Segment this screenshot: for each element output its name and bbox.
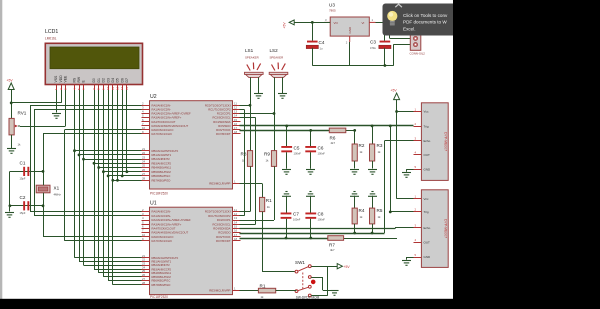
U2 pin 27 RB6/KBI2/PGC xyxy=(142,172,171,178)
junction C7 tap xyxy=(285,237,288,240)
svg-text:Echo: Echo xyxy=(424,139,431,143)
wire R9 to U1 RC2 xyxy=(274,166,276,220)
wire R5 to line xyxy=(372,224,374,233)
svg-text:D4: D4 xyxy=(111,78,115,82)
wire +5V module rail xyxy=(396,100,398,199)
svg-text:12: 12 xyxy=(116,86,120,90)
svg-text:RA6/OSC2/CLKO: RA6/OSC2/CLKO xyxy=(152,235,174,239)
svg-text:RA4/T0CKI/C1OUT: RA4/T0CKI/C1OUT xyxy=(152,120,176,124)
svg-text:Vcc: Vcc xyxy=(424,197,430,201)
svg-text:GND: GND xyxy=(424,167,432,171)
wire bus E to U1 RB2 xyxy=(84,265,142,267)
U1 pin 1 RE3/MCLR/VPP xyxy=(209,286,240,292)
wire line2 U1 RC6 left xyxy=(240,238,328,240)
wire Trig2 wire xyxy=(390,211,413,213)
svg-text:Trig: Trig xyxy=(424,124,429,128)
U3 GND label xyxy=(348,26,352,34)
svg-text:RC6/TX/CK: RC6/TX/CK xyxy=(216,235,231,239)
wire gnd bus under U3 xyxy=(312,65,393,67)
LCD pin label D5 pin 12 xyxy=(116,78,120,90)
label R1 bottom xyxy=(260,283,266,288)
wire SW1 to +5V xyxy=(311,266,337,268)
U1 pin 9 RA7/OSC1/CLKI xyxy=(142,237,173,243)
U1 pin 10 RA6/OSC2/CLKO xyxy=(142,233,174,239)
label C3 xyxy=(370,40,376,45)
svg-text:13: 13 xyxy=(120,86,124,90)
svg-text:R4: R4 xyxy=(359,208,365,213)
wire line2 right of R7 xyxy=(344,238,397,240)
svg-text:R5: R5 xyxy=(377,208,383,213)
wire C7 stem top xyxy=(286,196,288,213)
wire Vcc1 wire xyxy=(397,111,414,113)
wire U2 MCLR out xyxy=(240,183,263,185)
U2 pin 16 RC5/SDO xyxy=(218,122,240,128)
svg-text:R7: R7 xyxy=(329,243,335,248)
wire to U2 RA6/OSC2 xyxy=(65,129,142,131)
svg-text:RC1/T1OSI/CCP2: RC1/T1OSI/CCP2 xyxy=(208,108,231,112)
svg-text:RC3/SCK/SCL: RC3/SCK/SCL xyxy=(212,116,231,120)
svg-text:RA7/OSC1/CLKI: RA7/OSC1/CLKI xyxy=(152,132,173,136)
svg-text:RB6/KBI2/PGC: RB6/KBI2/PGC xyxy=(152,174,171,178)
junction bus RS tap U2 xyxy=(73,149,76,152)
wire bus D4 to U2 RB7 xyxy=(113,180,142,182)
svg-text:R1: R1 xyxy=(260,283,266,288)
ground R5 ground xyxy=(368,192,377,197)
svg-text:RB1/AN10/INT1: RB1/AN10/INT1 xyxy=(152,153,172,157)
svg-text:28: 28 xyxy=(142,281,146,285)
wire U2 RC2 to LS2 xyxy=(240,113,275,115)
svg-text:RA5/AN4/SS/HLVDIN/C2OUT: RA5/AN4/SS/HLVDIN/C2OUT xyxy=(152,124,189,128)
ground crystal ground xyxy=(5,213,14,218)
svg-text:100nF: 100nF xyxy=(318,218,326,222)
wire bus D1 vertical xyxy=(98,90,100,273)
label U2 PIC18F2520 xyxy=(150,192,168,196)
wire bus RS vertical xyxy=(74,90,76,258)
U1 pin 21 RB0/AN12/INT0/FLT0 xyxy=(142,254,179,260)
ground R3 ground xyxy=(368,170,377,175)
svg-text:DYP-ME007: DYP-ME007 xyxy=(444,132,448,151)
svg-text:D3: D3 xyxy=(106,78,110,82)
U2 pin 1 RE3/MCLR/VPP xyxy=(209,180,240,186)
power arrow +5V at SW1 (right) xyxy=(337,264,342,269)
svg-text:28: 28 xyxy=(142,177,146,181)
U2 pin 14 RC3/SCK/SCL xyxy=(212,114,240,120)
U1 pin 26 RB5/KBI1/PGM xyxy=(142,273,172,279)
value C4 xyxy=(320,47,323,51)
resistor R1 xyxy=(260,197,265,211)
wire C8 stem top xyxy=(310,196,312,213)
wire bus D6 vertical xyxy=(122,90,124,176)
wire +5V to LCD VDD xyxy=(11,102,61,104)
svg-text:C5: C5 xyxy=(294,146,300,151)
U2 pin 18 RC7/RX/DT xyxy=(216,130,241,136)
svg-text:OUT: OUT xyxy=(424,240,431,244)
LCD pin label D1 pin 8 xyxy=(97,78,101,90)
U1 pin 2 RA0/AN0/C1IN- xyxy=(142,208,171,214)
wire LCD VEE drop xyxy=(65,90,67,126)
tooltip lightbulb icon xyxy=(387,11,397,26)
wire SW1 bottom link xyxy=(311,295,328,297)
svg-text:RW: RW xyxy=(77,76,81,82)
svg-text:Click on Tools to conv: Click on Tools to conv xyxy=(403,13,448,18)
U1 pin 23 RB2/AN8/INT2 xyxy=(142,261,171,267)
svg-text:4k7: 4k7 xyxy=(331,141,336,145)
wire AN1 rail xyxy=(34,110,36,216)
wire R4 to line xyxy=(354,224,356,233)
ground R4 ground xyxy=(350,192,359,197)
U2 pin 22 RB1/AN10/INT1 xyxy=(142,151,172,157)
U1 pin 24 RB3/AN9/CCP2 xyxy=(142,265,172,271)
U3 VI label xyxy=(362,21,365,25)
wire bus D2 vertical xyxy=(103,90,105,277)
U2 pin 3 RA1/AN1/C2IN- xyxy=(142,106,171,112)
wire bus RW vertical xyxy=(79,90,81,261)
svg-text:C2: C2 xyxy=(20,195,26,200)
label SPEAKER LS2 xyxy=(270,56,284,60)
wire GND1 wire xyxy=(407,169,414,171)
junction Trig rail tap xyxy=(389,125,392,128)
U1 pin 12 RC1/T1OSI/CCP2 xyxy=(208,212,240,218)
junction bus D2 tap U2 xyxy=(102,170,105,173)
svg-text:RC7/RX/DT: RC7/RX/DT xyxy=(216,132,231,136)
junction bus D4 tap U2 xyxy=(111,179,114,182)
wire LS2 to R9 rail xyxy=(274,82,276,151)
capacitor C5 xyxy=(281,146,292,152)
svg-text:R1: R1 xyxy=(266,198,272,203)
wire C3 stem bottom xyxy=(384,48,386,66)
wire OSC2 rail xyxy=(64,130,66,241)
wire Trig rail xyxy=(390,126,392,212)
wire bus E vertical xyxy=(83,90,85,265)
LCD pin label D2 pin 9 xyxy=(101,78,105,90)
label U1 xyxy=(150,201,157,207)
label SW1 xyxy=(295,260,305,265)
wire line A U2 RC5 / Trig xyxy=(240,125,414,127)
wire GND2 wire xyxy=(407,257,414,259)
wire R5 stem top xyxy=(372,196,374,208)
U2 pin 13 RC2/CCP1 xyxy=(217,110,241,116)
junction C3 tap xyxy=(384,21,387,24)
wire C1-C2 common xyxy=(9,171,11,205)
U1 pin 4 RA2/AN2/C2IN+/VREF-/CVREF xyxy=(142,216,192,222)
wire C6 to gnd xyxy=(310,152,312,168)
wire U1 RC0 wire xyxy=(240,211,251,213)
svg-text:RB0/AN12/INT0/FLT0: RB0/AN12/INT0/FLT0 xyxy=(152,256,179,260)
svg-text:C8: C8 xyxy=(318,212,324,217)
module U4 DYP-ME007 vertical label xyxy=(444,132,448,151)
wire C4 stem top xyxy=(312,22,314,40)
wire to U2 RA7/OSC1 xyxy=(43,133,142,135)
svg-text:470u: 470u xyxy=(370,46,376,50)
wire bus RW to U2 RB1 xyxy=(79,154,142,156)
wire bus D2 to U2 RB5 xyxy=(103,171,141,173)
svg-text:RA2/AN2/C2IN+/VREF-/CVREF: RA2/AN2/C2IN+/VREF-/CVREF xyxy=(152,112,192,116)
wire C4 stem bottom xyxy=(312,48,314,66)
microcontroller U1 PIC18F2520 body xyxy=(150,207,233,294)
svg-text:RC5/SDO: RC5/SDO xyxy=(218,124,230,128)
wire U3 VO wire xyxy=(294,22,330,24)
svg-text:R3: R3 xyxy=(377,143,383,148)
wire Vcc2 wire xyxy=(397,198,414,200)
LCD screen xyxy=(50,47,139,69)
ultrasonic module U5 DYP-ME007 body xyxy=(421,190,448,268)
wire GND2 stem xyxy=(406,257,408,260)
U1 pin 5 RA3/AN3/C1IN+/VREF+ xyxy=(142,220,182,226)
svg-text:RA0/AN0/C1IN-: RA0/AN0/C1IN- xyxy=(152,210,171,214)
wire bus E to U2 RB2 xyxy=(84,159,142,161)
wire C5 stem xyxy=(286,126,288,146)
junction bus D3 tap U2 xyxy=(107,175,110,178)
U2 pin 5 RA3/AN3/C1IN+/VREF+ xyxy=(142,114,182,120)
U3 pin 1 stub xyxy=(369,18,375,22)
wire VI drop to conn xyxy=(389,22,391,38)
svg-text:RA1/AN1/C2IN-: RA1/AN1/C2IN- xyxy=(152,214,171,218)
svg-text:RB5/KBI1/PGM: RB5/KBI1/PGM xyxy=(152,275,172,279)
svg-text:PIC18F2520: PIC18F2520 xyxy=(150,192,168,196)
svg-text:RB4/KBI0/AN11: RB4/KBI0/AN11 xyxy=(152,166,172,170)
svg-text:4k7: 4k7 xyxy=(330,248,335,252)
wire conn pin2 wire xyxy=(394,44,411,46)
wire Echo1 wire xyxy=(385,140,414,142)
speaker LS1 symbol xyxy=(245,63,264,78)
ground SW1 ground xyxy=(330,291,338,296)
wire SW1 throw2 link xyxy=(311,277,323,279)
svg-text:100nF: 100nF xyxy=(293,218,301,222)
LCD pin label D4 pin 11 xyxy=(111,78,115,90)
svg-text:RB7/KBI3/PGD: RB7/KBI3/PGD xyxy=(152,178,171,182)
svg-text:LS2: LS2 xyxy=(270,48,279,53)
LCD pin label E pin 6 xyxy=(82,80,86,91)
U3 pin 2 stub xyxy=(346,36,350,44)
svg-text:RC3/SCK/SCL: RC3/SCK/SCL xyxy=(212,222,231,226)
svg-text:+5V: +5V xyxy=(7,79,14,83)
label +5V modules xyxy=(391,89,398,93)
U1 pin 22 RB1/AN10/INT1 xyxy=(142,258,172,264)
resistor R8 xyxy=(247,151,252,167)
wire Echo2 wire xyxy=(395,227,414,229)
junction C2-X1 node xyxy=(42,204,45,207)
svg-text:RC4/SDI/SDA: RC4/SDI/SDA xyxy=(213,120,230,124)
U2 pin 21 RB0/AN12/INT0/FLT0 xyxy=(142,147,179,153)
svg-text:R6: R6 xyxy=(330,136,336,141)
connector J1 CONN-SIL2 xyxy=(410,35,421,51)
U1 pin 14 RC3/SCK/SCL xyxy=(212,220,240,226)
label 7805 xyxy=(329,9,336,13)
svg-text:D2: D2 xyxy=(102,78,106,82)
junction bus D7 tap xyxy=(126,170,129,173)
label LM016L xyxy=(45,37,57,41)
svg-text:RA7/OSC1/CLKI: RA7/OSC1/CLKI xyxy=(152,239,173,243)
svg-text:15pF: 15pF xyxy=(20,177,26,181)
ground module2 ground xyxy=(402,261,411,266)
U2 pin 26 RB5/KBI1/PGM xyxy=(142,168,172,174)
svg-text:RC2/CCP1: RC2/CCP1 xyxy=(217,112,231,116)
capacitor C3 (electrolytic) xyxy=(379,41,391,49)
U1 pin 6 RA4/T0CKI/C1OUT xyxy=(142,225,176,231)
capacitor C2 xyxy=(23,201,29,210)
svg-text:C3: C3 xyxy=(370,40,376,45)
module U5 pin 2 Trig xyxy=(414,208,429,214)
wire U3 gnd drop xyxy=(349,42,351,66)
wire bus D7 vertical xyxy=(126,90,128,172)
wire Echo1 rail xyxy=(384,141,386,233)
LCD pin label D6 pin 13 xyxy=(120,78,124,90)
label U2 xyxy=(150,94,157,100)
U1 pin 28 RB7/KBI3/PGD xyxy=(142,281,171,287)
junction bus D5 tap xyxy=(116,179,119,182)
wire RV1 to gnd xyxy=(11,135,13,148)
U2 pin 24 RB3/AN9/CCP2 xyxy=(142,160,172,166)
svg-text:DYP-ME007: DYP-ME007 xyxy=(444,219,448,238)
wire LS1 right leg stub xyxy=(258,77,260,82)
U3 VO label xyxy=(334,21,339,25)
U2 pin 17 RC6/TX/CK xyxy=(216,126,240,132)
svg-text:GND: GND xyxy=(424,255,432,259)
svg-text:18: 18 xyxy=(234,237,238,241)
svg-text:U1: U1 xyxy=(150,201,157,207)
LCD pin label RW pin 5 xyxy=(77,76,81,90)
LCD pin label D0 pin 7 xyxy=(92,78,96,90)
value C3 xyxy=(370,46,376,50)
svg-text:RB0/AN12/INT0/FLT0: RB0/AN12/INT0/FLT0 xyxy=(152,149,179,153)
resistor R3 xyxy=(370,144,375,161)
label U3 xyxy=(329,3,335,8)
ground R2 ground xyxy=(350,170,359,175)
wire C8 to line xyxy=(310,219,312,238)
U2 pin 15 RC4/SDI/SDA xyxy=(213,118,240,124)
svg-text:U3: U3 xyxy=(329,3,335,8)
wire R3 to gnd xyxy=(372,161,374,169)
RV1 wiper arrow xyxy=(15,125,20,128)
wire +5V to RV1 xyxy=(11,90,13,119)
label CONN-SIL2 xyxy=(410,52,426,56)
wire AN0 rail xyxy=(30,105,32,211)
U2 pin 28 RB7/KBI3/PGD xyxy=(142,177,171,183)
junction C8 tap xyxy=(309,237,312,240)
svg-text:RB4/KBI0/AN11: RB4/KBI0/AN11 xyxy=(152,271,172,275)
module U4 pin 2 Trig xyxy=(414,122,429,128)
svg-text:LS1: LS1 xyxy=(245,48,254,53)
svg-text:4MHz: 4MHz xyxy=(54,193,62,197)
svg-text:VI: VI xyxy=(362,21,365,25)
svg-text:7805: 7805 xyxy=(329,9,336,13)
module U5 pin 5 GND xyxy=(414,253,432,259)
wire C6 stem xyxy=(310,130,312,146)
resistor R5 xyxy=(370,208,375,224)
label +5V left rail xyxy=(7,79,14,83)
capacitor C6 xyxy=(305,146,316,152)
svg-text:C7: C7 xyxy=(293,212,299,217)
LCD pin label RS pin 4 xyxy=(73,77,77,90)
svg-text:RB5/KBI1/PGM: RB5/KBI1/PGM xyxy=(152,170,172,174)
wire bus D4 to U1 RB7 xyxy=(113,284,142,286)
label SW-DPDT-MOM xyxy=(296,296,320,300)
wire LS1 left leg stub xyxy=(250,77,252,82)
svg-text:LM016L: LM016L xyxy=(45,37,57,41)
label U1 PIC18F2520 xyxy=(150,295,168,299)
svg-text:RC0/T1OSO/T13CKI: RC0/T1OSO/T13CKI xyxy=(205,103,231,107)
resistor RV1 xyxy=(9,118,14,134)
wire AN0 to U2 RA0 xyxy=(30,105,142,107)
speaker LS2 symbol xyxy=(269,63,288,78)
module U4 pin 3 Echo xyxy=(414,137,431,143)
wire AN0 to U1 RA0 xyxy=(30,211,142,213)
wire SW1 rail a xyxy=(327,266,329,295)
svg-text:VEE: VEE xyxy=(64,75,68,83)
U1 pin 7 RA5/AN4/SS/HLVDIN/C2OUT xyxy=(142,229,189,235)
svg-text:RB3/AN9/CCP2: RB3/AN9/CCP2 xyxy=(152,161,172,165)
resistor R4 xyxy=(352,208,357,224)
wire C5 to gnd xyxy=(286,152,288,168)
value 4MHz xyxy=(54,193,62,197)
wire bus RS to U1 RB0 xyxy=(75,257,142,259)
svg-text:RA0/AN0/C1IN-: RA0/AN0/C1IN- xyxy=(152,103,171,107)
U2 pin 7 RA5/AN4/SS/HLVDIN/C2OUT xyxy=(142,122,189,128)
U2 pin 10 RA6/OSC2/CLKO xyxy=(142,126,174,132)
black bottom bar xyxy=(0,299,600,309)
U1 pin 3 RA1/AN1/C2IN- xyxy=(142,212,171,218)
wire R1b to SW1 pole2 xyxy=(276,290,297,292)
svg-text:RB3/AN9/CCP2: RB3/AN9/CCP2 xyxy=(152,267,172,271)
wire bus D3 to U2 RB6 xyxy=(108,175,141,177)
label LS1 xyxy=(245,48,254,53)
wire C2 net xyxy=(10,205,43,207)
svg-text:RB1/AN10/INT1: RB1/AN10/INT1 xyxy=(152,260,172,264)
ground LS2 ground xyxy=(278,94,287,99)
wire bus D1 to U2 RB4 xyxy=(99,167,142,169)
page left edge strip xyxy=(0,0,2,309)
wire conn pin2 drop xyxy=(393,44,395,65)
voltage regulator U3 7805 body xyxy=(330,17,369,36)
wire R4 stem top xyxy=(354,196,356,208)
wire U1 RC2 wire xyxy=(240,220,275,222)
capacitor C7 xyxy=(281,213,292,219)
junction bus D0 tap U2 xyxy=(93,162,96,165)
wire RC3 link rail xyxy=(255,118,257,225)
wire U2 RC1 out xyxy=(240,109,245,111)
wire SW1 rail b xyxy=(322,277,324,290)
wire R2 to gnd xyxy=(354,161,356,169)
module U4 pin 5 GND xyxy=(414,165,432,171)
U3 pin 3 stub xyxy=(324,18,330,22)
wire RV1 wiper to LCD VEE xyxy=(20,126,66,128)
resistor R9 xyxy=(271,151,276,167)
junction C3 gnd node xyxy=(384,64,387,67)
wire to SW1 pole1 xyxy=(262,271,295,273)
svg-text:100nF: 100nF xyxy=(318,152,326,156)
U2 pin 6 RA4/T0CKI/C1OUT xyxy=(142,118,176,124)
svg-text:RC6/TX/CK: RC6/TX/CK xyxy=(216,128,231,132)
U2 pin 23 RB2/AN8/INT2 xyxy=(142,155,171,161)
module U5 pin 3 Echo xyxy=(414,224,431,230)
junction bus D1 tap U2 xyxy=(97,166,100,169)
ground RV1 ground xyxy=(7,149,16,154)
wire bus D0 vertical xyxy=(94,90,96,269)
svg-text:Vcc: Vcc xyxy=(424,110,430,114)
svg-text:RC1/T1OSI/CCP2: RC1/T1OSI/CCP2 xyxy=(208,214,231,218)
svg-text:RV1: RV1 xyxy=(18,111,27,116)
svg-text:+5V: +5V xyxy=(283,22,287,29)
U1 pin 17 RC6/TX/CK xyxy=(216,233,240,239)
wire R3 stem xyxy=(372,126,374,144)
wire to U1 RA7/OSC1 xyxy=(65,240,142,242)
wire Echo2 line U1 RC4 xyxy=(240,228,396,230)
svg-text:D6: D6 xyxy=(120,78,124,82)
wire bus D3 to U1 RB6 xyxy=(108,280,141,282)
label X1 xyxy=(54,186,60,191)
LCD pin label D7 pin 14 xyxy=(125,78,129,90)
ground C7 ground xyxy=(282,192,291,197)
